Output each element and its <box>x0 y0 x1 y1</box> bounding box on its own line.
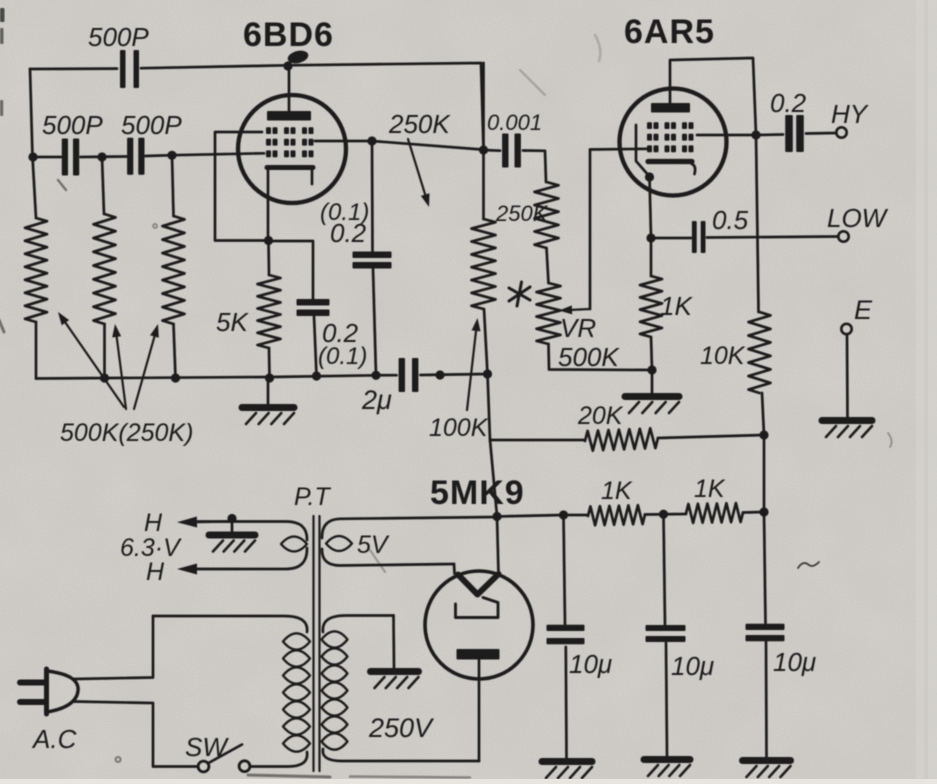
svg-text:H: H <box>144 509 163 537</box>
svg-text:H: H <box>146 558 165 586</box>
svg-text:0.5: 0.5 <box>712 205 749 235</box>
svg-text:1K: 1K <box>660 291 693 321</box>
svg-text:0.2: 0.2 <box>770 88 807 118</box>
svg-text:A.C: A.C <box>31 724 77 754</box>
svg-text:500K(250K): 500K(250K) <box>60 419 193 447</box>
svg-text:10μ: 10μ <box>773 647 816 677</box>
svg-text:SW: SW <box>185 732 229 762</box>
svg-text:10μ: 10μ <box>569 649 612 679</box>
svg-text:1K: 1K <box>694 475 726 503</box>
svg-text:0.2: 0.2 <box>330 218 367 248</box>
svg-text:(0.1): (0.1) <box>318 343 367 370</box>
svg-text:100K: 100K <box>429 414 489 442</box>
svg-text:10K: 10K <box>700 342 746 370</box>
svg-text:HY: HY <box>831 99 869 129</box>
svg-text:500P: 500P <box>42 110 103 140</box>
svg-text:1K: 1K <box>601 477 633 505</box>
svg-text:2μ: 2μ <box>361 385 392 415</box>
svg-text:LOW: LOW <box>827 203 889 233</box>
svg-text:5K: 5K <box>216 307 249 337</box>
svg-text:500P: 500P <box>88 22 149 52</box>
svg-text:6AR5: 6AR5 <box>624 13 715 51</box>
svg-text:250K: 250K <box>388 109 451 139</box>
svg-text:500P: 500P <box>121 110 182 140</box>
svg-text:10μ: 10μ <box>671 651 714 681</box>
svg-text:E: E <box>854 295 873 325</box>
svg-text:250K: 250K <box>495 201 549 226</box>
svg-text:VR: VR <box>560 313 596 343</box>
svg-text:P.T: P.T <box>294 483 331 511</box>
svg-text:500K: 500K <box>558 342 620 372</box>
svg-text:250V: 250V <box>368 713 435 743</box>
svg-text:0.001: 0.001 <box>487 110 542 135</box>
svg-text:20K: 20K <box>577 402 624 430</box>
svg-text:5MK9: 5MK9 <box>430 474 525 512</box>
svg-text:6BD6: 6BD6 <box>243 16 334 54</box>
